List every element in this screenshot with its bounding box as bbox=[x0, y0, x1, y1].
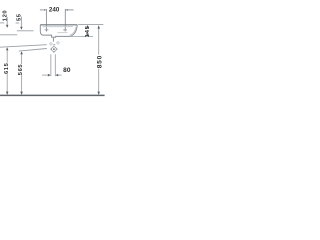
svg-text:850: 850 bbox=[97, 55, 104, 68]
svg-text:565: 565 bbox=[18, 64, 24, 76]
svg-text:145: 145 bbox=[85, 25, 91, 37]
svg-text:80: 80 bbox=[63, 67, 71, 74]
svg-text:120: 120 bbox=[3, 10, 9, 21]
svg-text:240: 240 bbox=[49, 7, 60, 14]
svg-text:615: 615 bbox=[4, 62, 10, 74]
